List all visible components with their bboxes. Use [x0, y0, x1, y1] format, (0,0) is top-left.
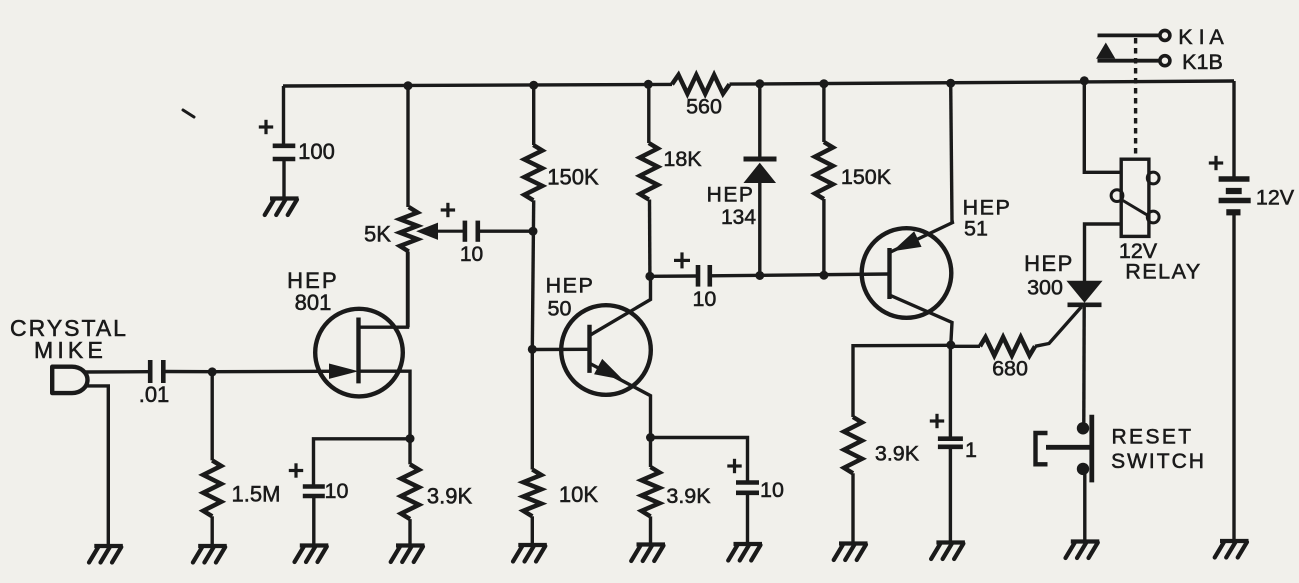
HEP50 emitter arrowhead	[595, 360, 622, 379]
wire collector node to 680	[951, 345, 980, 348]
node 150K2/coupling	[819, 271, 828, 280]
battery 12V	[1219, 179, 1251, 212]
wire 10K to ground	[531, 516, 534, 544]
label 1.5M	[232, 482, 281, 507]
label 801	[295, 290, 332, 315]
value label 10	[460, 243, 483, 266]
label SWITCH	[1111, 450, 1206, 473]
wire node to coupling cap	[650, 274, 697, 278]
svg-text:134: 134	[721, 206, 756, 229]
wire rail to 150K	[532, 85, 535, 145]
svg-text:RESET: RESET	[1111, 426, 1193, 449]
ground under HEP50 3.9K	[631, 545, 665, 562]
reset switch bottom contact	[1077, 463, 1089, 475]
node mike/1.5M junction	[208, 367, 217, 376]
label 50	[548, 297, 572, 321]
svg-text:SWITCH: SWITCH	[1111, 450, 1206, 473]
svg-text:10K: 10K	[559, 482, 598, 507]
node rail/HEP51 emitter	[946, 79, 955, 88]
wire wiper cap to divider	[478, 229, 533, 232]
label KIA	[1178, 25, 1224, 49]
node rail/18K	[644, 80, 653, 89]
polarity + of C1	[930, 414, 944, 428]
svg-text:150K: 150K	[547, 165, 599, 190]
value label 100	[298, 139, 335, 164]
HEP801 gate arrowhead	[330, 364, 357, 378]
moving contact triangle	[1097, 44, 1115, 59]
label 18K	[663, 147, 702, 171]
wire V+ rail left	[283, 84, 672, 86]
capacitor 10 (emitter bypass)	[736, 483, 759, 493]
HEP801 drain lead	[359, 252, 408, 328]
node rail/relay branch	[1080, 76, 1089, 85]
contact K1B	[1098, 56, 1170, 66]
label RESET	[1111, 426, 1193, 449]
capacitor 10 (interstage)	[698, 265, 710, 287]
wire 3.9K to ground	[408, 519, 411, 545]
wire node to 1.5M	[210, 372, 213, 461]
label MIKE	[34, 337, 107, 363]
svg-text:12V: 12V	[1256, 186, 1295, 210]
wire 3.9K HEP50 to ground	[649, 516, 652, 544]
wire .01 to gate node	[163, 370, 212, 374]
wire rail to 18K	[647, 84, 650, 143]
wire source node to 3.9K	[408, 439, 411, 465]
transistor HEP 51 circle	[862, 228, 952, 318]
HEP51 emitter arrowhead	[894, 232, 921, 250]
value label 10 (interstage)	[692, 287, 716, 311]
svg-text:680: 680	[992, 357, 1028, 381]
ground under emitter bypass	[728, 544, 762, 561]
label 5K	[364, 222, 391, 247]
svg-text:1: 1	[965, 438, 977, 462]
svg-text:.01: .01	[139, 382, 170, 407]
value label 10 (source bypass)	[325, 479, 349, 503]
svg-text:K1B: K1B	[1182, 50, 1223, 74]
svg-text:801: 801	[295, 290, 332, 315]
resistor 18K	[640, 143, 658, 200]
wire V+ rail right	[730, 81, 1235, 84]
label 3.9K (HEP51)	[875, 442, 920, 466]
wire 1.5M to ground	[210, 516, 213, 546]
resistor 3.9K (HEP51)	[844, 417, 862, 473]
node HEP51 collector	[946, 341, 955, 350]
wire 150K to base node	[532, 200, 533, 349]
node wiper junction	[529, 227, 538, 236]
svg-text:51: 51	[964, 217, 988, 241]
polarity + of C 100	[259, 120, 273, 134]
label HEP (134)	[707, 184, 755, 207]
resistor 3.9K (HEP50)	[642, 467, 660, 516]
resistor 10K	[523, 470, 541, 517]
wire rail to 150K second	[822, 84, 825, 142]
capacitor C 100 plates	[273, 146, 296, 159]
HEP801 source lead	[359, 371, 411, 438]
wire rail to relay coil	[1084, 81, 1121, 173]
relay coil diagonal	[1121, 200, 1149, 217]
reset switch actuator bar	[1089, 415, 1094, 483]
ground under C 100	[265, 199, 299, 216]
HEP801 gate bar	[356, 318, 360, 384]
label 134	[721, 206, 756, 229]
wire switch to ground	[1083, 473, 1086, 542]
svg-text:18K: 18K	[663, 147, 702, 171]
reset switch stem	[1046, 445, 1090, 450]
relay coil 12V box	[1121, 159, 1149, 236]
stray mark	[183, 110, 194, 117]
reset switch button cap	[1036, 433, 1048, 464]
svg-text:50: 50	[548, 297, 572, 321]
label 150K	[547, 165, 599, 190]
resistor 3.9K (FET source)	[401, 464, 419, 519]
label K1B	[1182, 50, 1223, 74]
label HEP (300)	[1024, 251, 1074, 276]
wiper arrow of 5K pot	[418, 223, 465, 239]
diode HEP 134	[744, 159, 777, 183]
label 680	[992, 357, 1028, 381]
wire 3.9K HEP51 to ground	[851, 473, 854, 543]
label 560	[686, 95, 722, 119]
wire rail to 5K pot	[406, 86, 409, 207]
reset switch top contact	[1077, 422, 1089, 434]
wire C 100 to ground	[282, 161, 285, 198]
resistor 680	[980, 337, 1035, 355]
wire base node to 10K	[531, 349, 534, 469]
svg-text:HEP: HEP	[1024, 251, 1074, 276]
ground under 10K	[513, 545, 547, 562]
wire mike hot lead	[86, 370, 149, 374]
ground under HEP51 3.9K	[834, 544, 868, 561]
value label 1	[965, 438, 977, 462]
label CRYSTAL	[10, 315, 128, 341]
node rail/150K	[529, 81, 538, 90]
wire rail to diode	[758, 84, 761, 157]
wire rail to HEP51 emitter	[951, 83, 952, 222]
node FET source	[406, 434, 415, 443]
node HEP50 emitter	[646, 433, 655, 442]
svg-text:MIKE: MIKE	[34, 337, 107, 363]
wire bypass cap to ground	[312, 498, 315, 546]
relay coil bump right 2	[1147, 211, 1159, 223]
label RELAY	[1125, 260, 1201, 284]
svg-text:5K: 5K	[364, 222, 391, 247]
svg-text:1.5M: 1.5M	[232, 482, 281, 507]
capacitor .01	[150, 360, 163, 383]
wire gate node to FET gate	[212, 370, 352, 374]
wire SCR cathode down	[1082, 307, 1086, 423]
ground under 1.5M	[193, 546, 227, 563]
wire emitter bypass to ground	[746, 495, 749, 545]
svg-text:10: 10	[760, 478, 784, 502]
value label 10 (emitter bypass)	[760, 478, 784, 502]
dashed link contacts to relay	[1134, 38, 1137, 155]
svg-text:10: 10	[325, 479, 349, 503]
wire C1 to ground	[949, 449, 952, 543]
HEP51 base bar	[887, 248, 891, 299]
resistor 1.5M	[203, 460, 221, 516]
label 12V battery	[1256, 186, 1295, 210]
svg-text:K I A: K I A	[1178, 25, 1224, 49]
relay coil bump left	[1111, 190, 1123, 202]
label HEP (801)	[287, 268, 339, 293]
label 51	[964, 217, 988, 241]
ground under source bypass	[295, 546, 329, 563]
SCR HEP 300 anode triangle	[1068, 281, 1102, 302]
ground under reset switch	[1066, 542, 1100, 559]
crystal mike body	[52, 367, 87, 393]
HEP50 base lead	[532, 348, 589, 352]
wire diode to coupling line	[758, 183, 761, 276]
relay coil bump right 1	[1147, 172, 1159, 184]
HEP51 collector lead	[890, 295, 953, 345]
ground under battery	[1215, 541, 1249, 558]
transistor HEP 801 circle	[315, 309, 403, 397]
polarity + of source bypass	[289, 463, 303, 477]
node rail/5K	[404, 81, 413, 90]
wire battery to ground	[1232, 215, 1235, 542]
wire 680 to SCR gate	[1035, 307, 1082, 347]
label 10K	[559, 482, 598, 507]
ground under FET 3.9K	[391, 546, 425, 563]
wire mike return to ground	[86, 386, 108, 546]
SCR cathode bar	[1068, 302, 1102, 307]
wire source node left	[314, 439, 411, 485]
HEP50 base bar	[587, 325, 591, 373]
ground under C1	[931, 543, 965, 560]
wire 18K to collector node	[648, 200, 652, 277]
wire 150K second to coupling line	[822, 199, 825, 275]
HEP50 emitter lead	[590, 363, 651, 437]
svg-text:560: 560	[686, 95, 722, 119]
node HEP134/coupling	[755, 271, 764, 280]
polarity + of interstage cap	[674, 252, 690, 268]
ground under mike	[89, 546, 123, 563]
contact K1A	[1098, 30, 1170, 40]
svg-text:HEP: HEP	[707, 184, 755, 207]
capacitor 1	[938, 439, 963, 447]
node HEP50 base	[528, 345, 537, 354]
capacitor 10 (wiper coupling)	[465, 221, 478, 242]
svg-text:150K: 150K	[841, 165, 892, 189]
svg-text:HEP: HEP	[546, 274, 595, 298]
polarity + of battery	[1209, 156, 1223, 170]
capacitor 10 (source bypass)	[303, 487, 325, 497]
svg-text:3.9K: 3.9K	[875, 442, 920, 466]
HEP50 collector lead	[590, 276, 651, 335]
node rail/HEP134	[755, 79, 764, 88]
label 3.9K (FET)	[427, 484, 473, 509]
label 300	[1027, 276, 1063, 300]
wire emitter node right	[651, 438, 748, 482]
node 18K/collector/coupling	[645, 272, 654, 281]
svg-text:100: 100	[298, 139, 335, 164]
label HEP (51)	[963, 196, 1012, 220]
resistor 150K first	[524, 145, 542, 200]
polarity + of wiper cap	[441, 203, 455, 217]
resistor 150K second	[815, 142, 833, 199]
wire relay coil to SCR anode	[1085, 224, 1122, 282]
svg-text:300: 300	[1027, 276, 1063, 300]
resistor 560	[672, 75, 730, 94]
node rail/150K second	[819, 79, 828, 88]
potentiometer 5K	[400, 207, 418, 252]
svg-text:RELAY: RELAY	[1125, 260, 1201, 284]
svg-text:10: 10	[460, 243, 483, 266]
polarity + of emitter bypass	[727, 459, 741, 473]
transistor HEP 50 circle	[561, 305, 651, 395]
svg-text:3.9K: 3.9K	[666, 484, 711, 508]
svg-text:3.9K: 3.9K	[427, 484, 473, 509]
label HEP (50)	[546, 274, 595, 298]
wire rail to battery +	[1232, 81, 1235, 178]
label 12V relay	[1119, 239, 1158, 263]
label 150K second	[841, 165, 892, 189]
wire emitter node to 3.9K	[649, 438, 652, 468]
svg-text:10: 10	[692, 287, 716, 311]
label 3.9K (HEP50)	[666, 484, 711, 508]
value label .01	[139, 382, 170, 407]
wire 5K pot to FET drain	[406, 252, 409, 328]
HEP51 emitter lead	[890, 222, 954, 253]
wire collector node left	[853, 345, 951, 417]
wire rail to C 100	[282, 86, 285, 145]
wire collector node down	[949, 345, 952, 437]
wire interstage cap to HEP51 base	[710, 274, 890, 276]
